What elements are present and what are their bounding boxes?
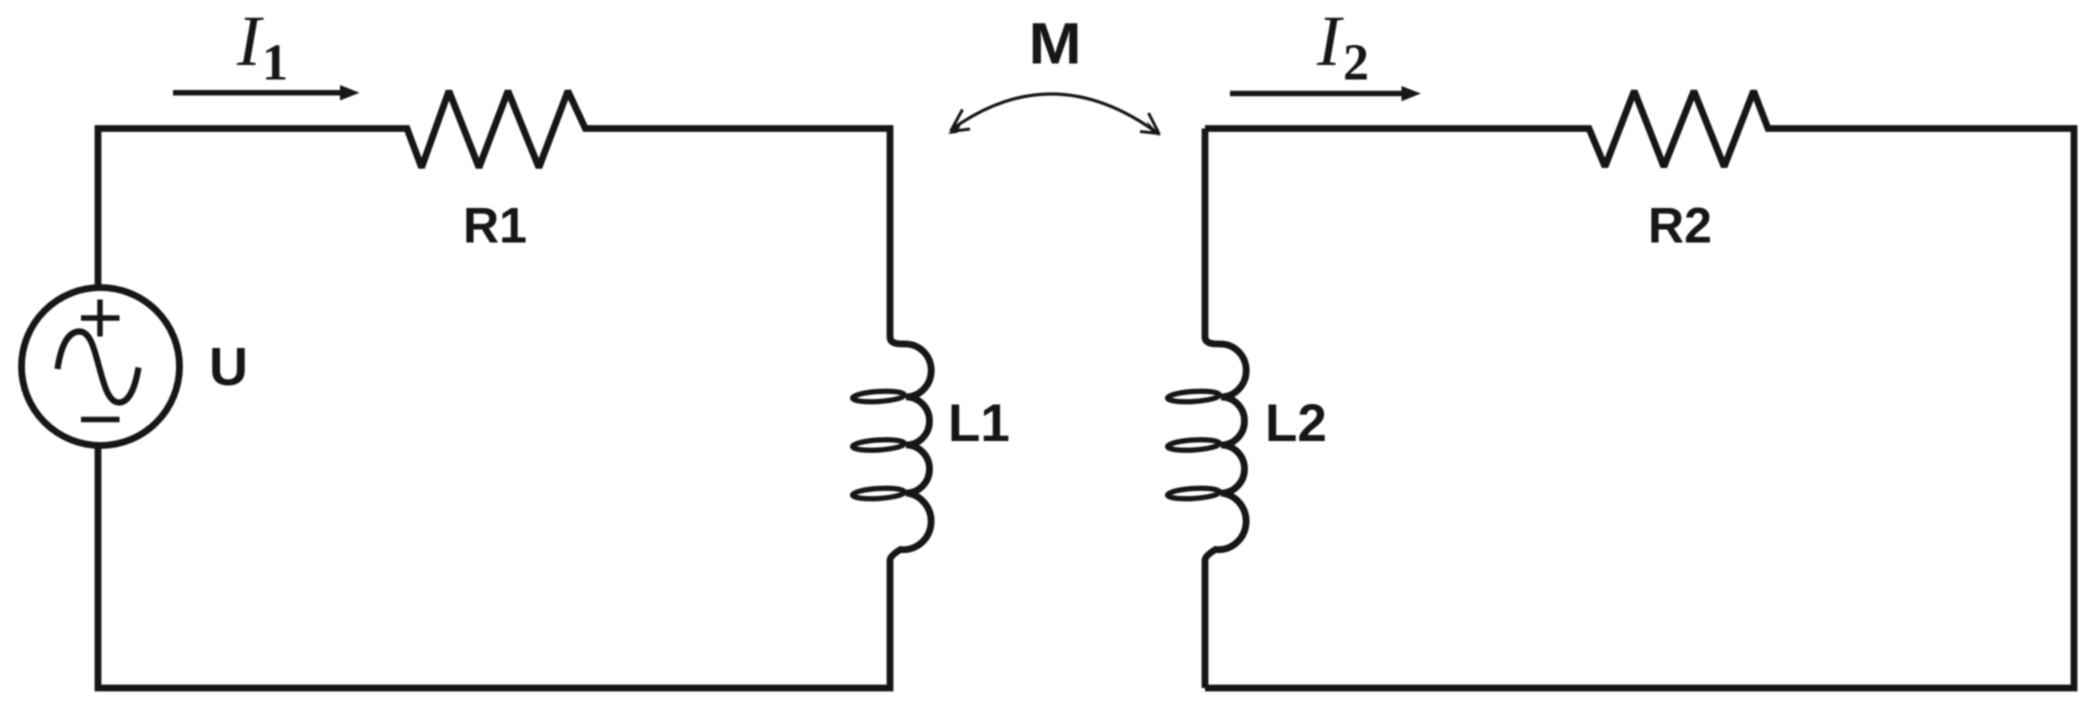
svg-text:2: 2 [1343, 35, 1369, 92]
svg-text:I: I [236, 1, 264, 81]
svg-text:1: 1 [262, 35, 288, 92]
svg-text:R2: R2 [1648, 198, 1712, 254]
svg-text:M: M [1029, 11, 1082, 76]
svg-text:L1: L1 [948, 394, 1010, 453]
svg-text:L2: L2 [1265, 394, 1327, 453]
svg-text:R1: R1 [463, 198, 527, 254]
svg-text:U: U [209, 337, 248, 397]
svg-text:I: I [1316, 1, 1344, 81]
